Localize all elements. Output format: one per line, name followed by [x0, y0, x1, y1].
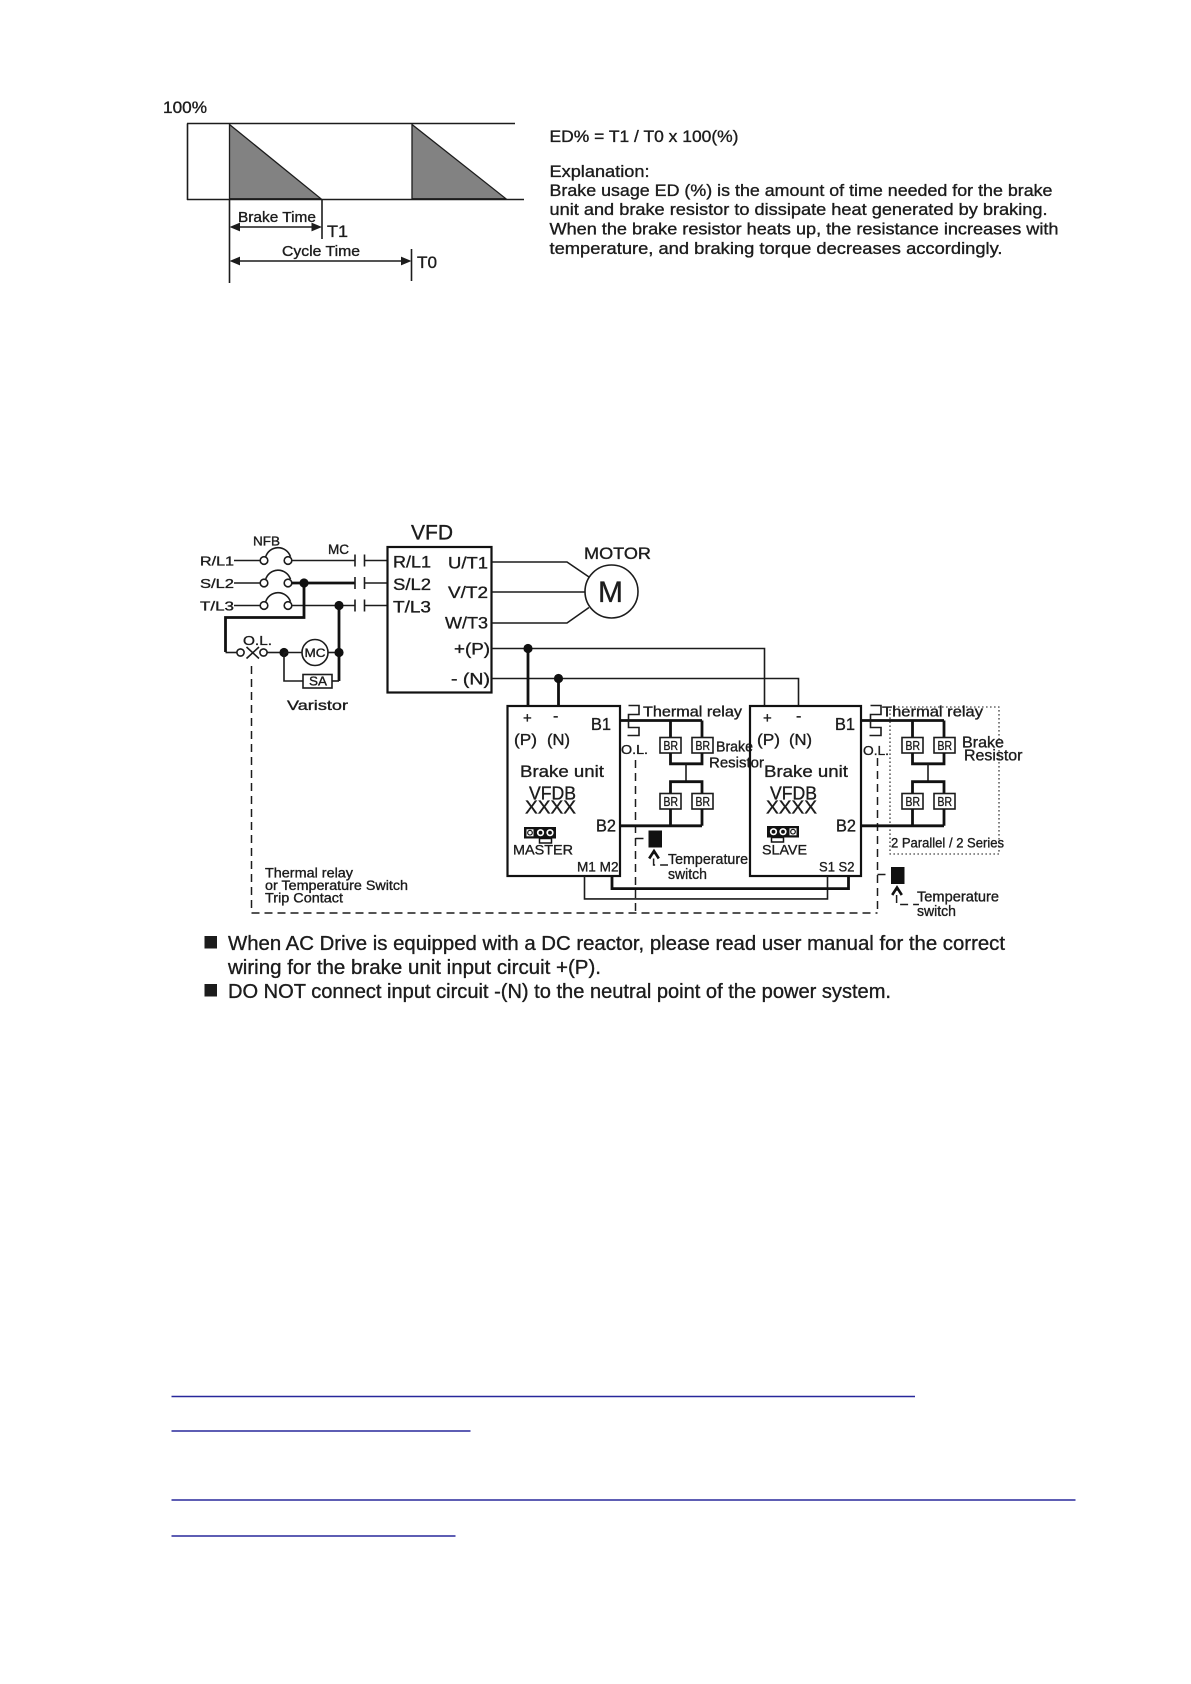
bullet 2 [205, 984, 218, 997]
svg-text:wiring for the brake unit inpu: wiring for the brake unit input circuit … [227, 957, 601, 979]
svg-text:Thermal relay: Thermal relay [643, 705, 743, 721]
axis top line [187, 123, 515, 125]
svg-text:U/T1: U/T1 [448, 555, 488, 573]
svg-text:+: + [763, 710, 772, 727]
svg-text:- (N): - (N) [451, 671, 490, 689]
temp switch sensor left [649, 831, 663, 848]
dashed trip-contact loop [252, 666, 878, 913]
svg-text:S/L2: S/L2 [393, 576, 431, 594]
contact O.L. trip [226, 647, 281, 659]
dashed link to sensor right [878, 874, 891, 876]
svg-text:T1: T1 [327, 223, 348, 241]
arrow T1 span [230, 223, 323, 232]
wire breaker to MC contact S [292, 582, 355, 585]
bus above row2 left [671, 782, 703, 794]
series link right [927, 764, 929, 782]
jumper connector master [524, 827, 556, 843]
svg-text:T0: T0 [417, 254, 437, 272]
wire S/L2 down to O.L. [226, 583, 305, 652]
svg-text:Brake usage ED (%) is the amou: Brake usage ED (%) is the amount of time… [550, 181, 1053, 200]
wire +(P) rail [492, 649, 765, 707]
wire S/L2 to breaker [234, 582, 260, 584]
wire T/L3 to breaker [234, 605, 260, 607]
resistor bank right risers [913, 721, 945, 738]
resistor BR 7 [902, 794, 923, 810]
svg-text:V/T2: V/T2 [448, 584, 488, 602]
rule 1 [172, 1396, 916, 1398]
svg-text:W/T3: W/T3 [445, 615, 488, 633]
resistor BR 1 [660, 738, 681, 754]
brake unit box slave [750, 706, 861, 876]
svg-text:BR: BR [938, 738, 953, 753]
svg-text:Explanation:: Explanation: [550, 162, 650, 181]
svg-text:NFB: NFB [253, 534, 280, 549]
svg-text:B2: B2 [596, 816, 616, 836]
resistor BR 5 [902, 738, 923, 754]
wire R/L1 to breaker [234, 560, 260, 562]
resistor BR 6 [934, 738, 955, 754]
series link left [685, 764, 687, 782]
svg-text:BR: BR [664, 738, 679, 753]
svg-text:B1: B1 [591, 714, 611, 734]
svg-text:+(P): +(P) [454, 641, 490, 659]
svg-text:+: + [523, 710, 532, 727]
svg-text:SA: SA [309, 674, 327, 689]
svg-text:-: - [796, 708, 801, 725]
svg-text:XXXX: XXXX [525, 798, 576, 818]
svg-text:O.L.: O.L. [863, 743, 889, 758]
svg-text:Thermal relay: Thermal relay [882, 705, 984, 721]
breaker NFB pole R [260, 548, 292, 565]
bus above row2 right [913, 782, 945, 794]
triangle pulse 2 [412, 125, 506, 199]
svg-text:Brake Time: Brake Time [238, 210, 316, 226]
wire MC to VFD S/L2 [365, 582, 389, 584]
wire + drop to master unit [527, 649, 530, 707]
svg-text:XXXX: XXXX [766, 798, 817, 818]
thermal relay symbol left [628, 706, 640, 736]
svg-text:DO NOT connect input circuit -: DO NOT connect input circuit -(N) to the… [228, 981, 891, 1003]
svg-text:M1 M2: M1 M2 [577, 859, 619, 875]
svg-text:(N): (N) [789, 732, 812, 749]
breaker NFB pole S [260, 570, 292, 587]
axis vertical [187, 124, 189, 201]
svg-text:MOTOR: MOTOR [584, 545, 651, 563]
wire T/L3 down through MC coil [338, 606, 341, 682]
svg-text:S/L2: S/L2 [200, 576, 234, 591]
dashed trip line right unit [877, 758, 879, 913]
svg-text:B2: B2 [836, 816, 856, 836]
svg-text:When AC Drive is equipped with: When AC Drive is equipped with a DC reac… [228, 933, 1005, 955]
svg-text:(P): (P) [757, 732, 780, 749]
dashed arrow lead right [897, 895, 919, 905]
svg-text:R/L1: R/L1 [393, 554, 431, 572]
svg-text:Brake unit: Brake unit [764, 762, 848, 781]
svg-text:Varistor: Varistor [287, 697, 348, 713]
svg-text:When the brake resistor heats: When the brake resistor heats up, the re… [550, 220, 1059, 239]
svg-text:Resistor: Resistor [709, 756, 764, 772]
svg-text:ED% = T1 / T0 x 100(%): ED% = T1 / T0 x 100(%) [550, 127, 739, 146]
svg-text:MC: MC [305, 646, 326, 660]
wire breaker to MC contact T [292, 605, 355, 607]
wire B2 master [620, 824, 702, 827]
svg-text:-: - [553, 708, 558, 725]
contact MC pole S [355, 577, 365, 589]
coil MC [284, 640, 339, 666]
svg-text:switch: switch [917, 904, 956, 920]
svg-text:switch: switch [668, 867, 707, 883]
axis baseline [187, 199, 524, 201]
junction T/L3 [334, 601, 343, 610]
brake unit box master [508, 706, 621, 876]
svg-text:MASTER: MASTER [513, 842, 573, 858]
svg-text:B1: B1 [835, 714, 855, 734]
svg-text:O.L.: O.L. [621, 742, 648, 757]
svg-text:M: M [598, 576, 623, 609]
dashed arrow lead left [654, 859, 668, 866]
svg-text:Brake: Brake [716, 740, 753, 756]
arrow temp switch left [649, 849, 659, 858]
bus below row1 right [913, 753, 945, 764]
svg-text:S1 S2: S1 S2 [819, 859, 855, 875]
contact MC pole T [355, 600, 365, 612]
svg-text:VFD: VFD [411, 521, 453, 545]
svg-text:BR: BR [696, 738, 711, 753]
breaker NFB pole T [260, 593, 292, 610]
resistor BR 4 [692, 794, 713, 810]
svg-text:Trip Contact: Trip Contact [265, 891, 343, 906]
svg-text:(P): (P) [514, 732, 537, 749]
resistor BR 8 [934, 794, 955, 810]
junction -(N) [554, 674, 563, 683]
T0 tick line [411, 249, 413, 281]
wire MC to VFD T/L3 [365, 605, 389, 607]
wire - drop to master unit [557, 679, 560, 707]
svg-text:BR: BR [906, 738, 921, 753]
svg-text:Temperature: Temperature [668, 852, 748, 868]
wire U/T1 to motor [492, 562, 590, 577]
junction +(P) [523, 644, 532, 653]
contact MC pole R [355, 555, 365, 567]
VFD box [388, 547, 492, 693]
svg-text:unit and brake resistor to dis: unit and brake resistor to dissipate hea… [550, 200, 1048, 219]
rule 3 [172, 1499, 1076, 1501]
wire W/T3 to motor [492, 608, 590, 624]
svg-text:O.L.: O.L. [243, 633, 272, 648]
dashed link to sensor left [636, 838, 649, 840]
wire V/T2 to motor [492, 591, 586, 593]
left tick line [229, 200, 231, 283]
T1 tick line [321, 200, 323, 239]
resistor bank left risers [671, 721, 703, 738]
svg-text:BR: BR [696, 794, 711, 809]
svg-text:temperature, and braking torqu: temperature, and braking torque decrease… [550, 239, 1003, 258]
svg-text:Resistor: Resistor [964, 748, 1023, 765]
svg-text:Cycle Time: Cycle Time [282, 244, 360, 260]
svg-text:BR: BR [664, 794, 679, 809]
svg-text:T/L3: T/L3 [393, 599, 431, 617]
svg-text:SLAVE: SLAVE [762, 842, 807, 858]
svg-text:R/L1: R/L1 [200, 554, 234, 569]
thermal relay symbol right [870, 706, 882, 736]
svg-text:T/L3: T/L3 [200, 599, 234, 614]
rule 2 [172, 1430, 471, 1432]
arrow temp switch right [892, 886, 902, 895]
temp switch sensor right [891, 867, 905, 884]
wire -(N) rail [492, 679, 799, 707]
svg-text:2 Parallel / 2 Series: 2 Parallel / 2 Series [891, 836, 1004, 851]
wire breaker to MC contact R [292, 560, 355, 562]
wire SA to vertical [332, 680, 339, 682]
arrow T0 span [230, 257, 412, 266]
svg-text:BR: BR [906, 794, 921, 809]
dashed trip line left unit [635, 760, 637, 913]
resistor BR 3 [660, 794, 681, 810]
junction MC out [334, 648, 343, 657]
varistor SA box [303, 675, 332, 689]
risers below row2 right [913, 809, 945, 826]
svg-text:BR: BR [938, 794, 953, 809]
jumper connector slave [767, 826, 799, 842]
wire B2 slave [861, 824, 944, 827]
bullet 1 [205, 936, 218, 949]
wire varistor branch [284, 653, 303, 682]
dotted enclosure 2P2S [890, 707, 999, 854]
junction O.L. out [279, 648, 288, 657]
svg-text:Brake unit: Brake unit [520, 762, 604, 781]
motor M circle [585, 565, 638, 618]
resistor BR 2 [692, 738, 713, 754]
svg-text:100%: 100% [163, 99, 207, 117]
wire B1 slave [861, 719, 944, 722]
risers below row2 left [671, 809, 703, 826]
junction S/L2 [299, 578, 308, 587]
svg-text:(N): (N) [547, 732, 570, 749]
wire B1 master [620, 719, 702, 722]
wire M2 to S2 [612, 876, 849, 889]
wire M1 to S1 [585, 876, 828, 899]
triangle pulse 1 [230, 125, 322, 199]
rule 4 [172, 1535, 456, 1537]
bus below row1 left [671, 753, 703, 764]
wire MC to VFD R/L1 [365, 560, 389, 562]
svg-text:MC: MC [328, 542, 349, 557]
